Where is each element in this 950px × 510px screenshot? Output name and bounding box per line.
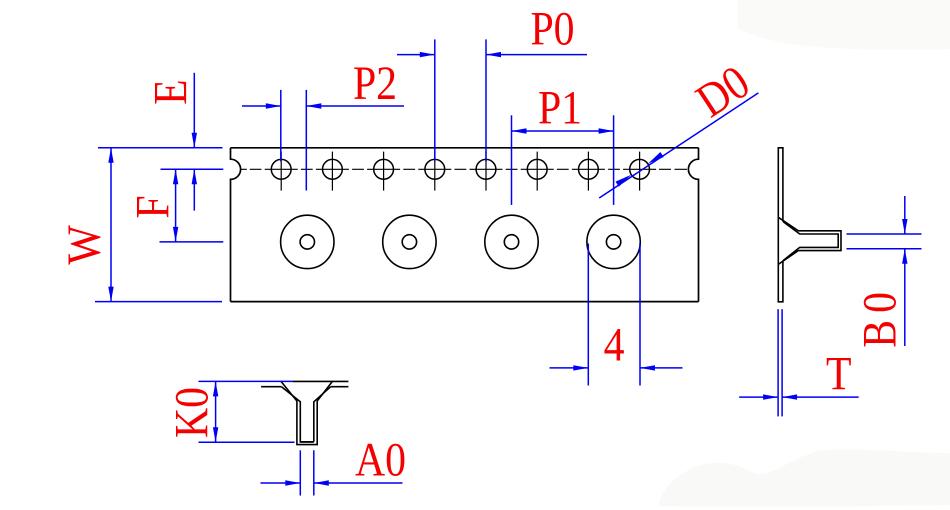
dimension E extension line (sprocket centerline)	[161, 168, 224, 170]
dimension A0 line	[261, 482, 301, 484]
svg-text:T: T	[826, 347, 851, 400]
sprocket hole 4	[425, 159, 445, 179]
dimension B0 line	[904, 196, 906, 234]
sprocket hole 2	[323, 159, 343, 179]
faint background patch bottom-right	[659, 449, 950, 506]
sprocket hole 1	[271, 159, 291, 179]
sprocket hole 1 crosshair	[280, 152, 282, 191]
dimension F extension line (pocket centerline)	[160, 241, 224, 243]
svg-text:4: 4	[604, 318, 625, 371]
sprocket hole 5	[476, 159, 496, 179]
pocket 4 outer circle	[587, 215, 640, 268]
svg-text:B0: B0	[853, 285, 906, 348]
svg-text:F: F	[126, 195, 179, 218]
svg-text:E: E	[144, 79, 197, 104]
pocket 1 outer circle	[281, 215, 334, 268]
dimension T line	[739, 396, 778, 398]
dimension 4 line	[550, 367, 589, 369]
svg-text:P0: P0	[530, 2, 574, 55]
svg-text:P2: P2	[353, 56, 397, 109]
dimension P2 extension lines	[280, 90, 282, 162]
sprocket hole 3	[374, 159, 394, 179]
pocket 3 center hole	[504, 235, 518, 249]
pocket section outer wall	[281, 381, 332, 444]
sprocket hole 2 crosshair	[331, 152, 333, 191]
dimension F line	[175, 169, 177, 242]
dimension W extension lines	[98, 147, 223, 149]
dimension P2 line	[242, 105, 281, 107]
pocket section tape surfaces	[261, 381, 348, 386]
svg-text:A0: A0	[355, 433, 406, 486]
dimension D0 leader line	[599, 93, 758, 198]
side section pocket outer wall	[778, 217, 841, 264]
dimension K0 line	[215, 381, 217, 442]
sprocket hole 4 crosshair	[434, 152, 436, 191]
sprocket hole 5 crosshair	[485, 152, 487, 191]
tape centerline dashes	[241, 168, 687, 170]
dimension E line	[193, 73, 195, 148]
side section tape profile	[778, 148, 784, 302]
sprocket hole 6	[527, 159, 547, 179]
dimension P0 extension lines	[434, 39, 436, 161]
sprocket hole 7 crosshair	[587, 152, 589, 191]
dimension 4 extension lines	[587, 244, 589, 386]
dimension T extension lines	[777, 309, 779, 416]
pocket 1 center hole	[300, 235, 314, 249]
dimension P0 line	[397, 54, 435, 56]
pocket 4 center hole	[606, 235, 620, 249]
dimension W line	[110, 148, 112, 302]
svg-text:K0: K0	[165, 387, 218, 438]
pocket section inner wall	[282, 387, 331, 442]
sprocket hole 7	[579, 159, 599, 179]
pocket 2 center hole	[402, 235, 416, 249]
side section pocket inner wall	[783, 222, 838, 261]
dimension P1 extension lines	[511, 115, 513, 205]
dimension B0 extension lines	[847, 233, 922, 235]
sprocket hole 3 crosshair	[383, 152, 385, 191]
dimension A0 extension lines	[299, 450, 301, 495]
sprocket hole 8 crosshair	[639, 152, 641, 191]
svg-text:W: W	[57, 225, 110, 265]
pocket 2 outer circle	[383, 215, 436, 268]
tape outline (front view) with half-hole notches	[231, 148, 699, 302]
dimension K0 extension lines	[199, 380, 293, 382]
faint background patch top-right	[738, 0, 950, 50]
sprocket hole 6 crosshair	[536, 152, 538, 191]
svg-text:P1: P1	[538, 81, 582, 134]
dimension P1 line	[512, 130, 614, 132]
sprocket hole 8	[630, 159, 650, 179]
pocket 3 outer circle	[485, 215, 538, 268]
